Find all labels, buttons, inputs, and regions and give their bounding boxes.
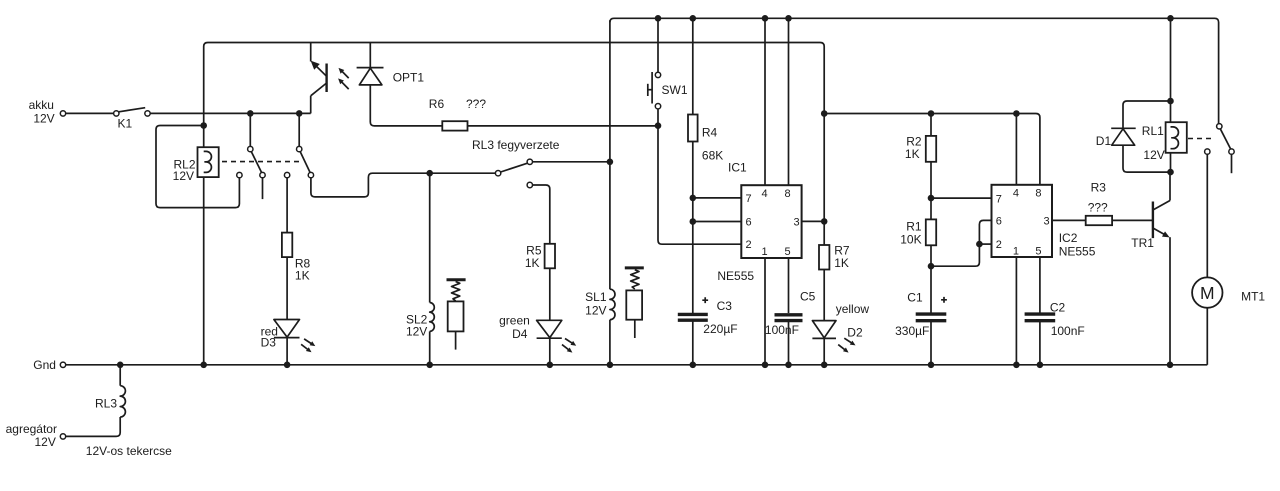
resistor R1 — [926, 219, 936, 245]
capacitor C5 100nF — [775, 313, 803, 316]
wire: R8 to D3 — [286, 257, 288, 319]
node C3/Gnd — [690, 362, 697, 369]
resistor R8 — [282, 233, 292, 258]
svg-text:TR1: TR1 — [1131, 236, 1154, 250]
svg-text:RL3: RL3 — [95, 397, 117, 411]
svg-text:5: 5 — [1035, 245, 1041, 257]
wire: armature common to SL1 vertical — [533, 161, 610, 163]
node pin6 — [690, 218, 697, 225]
node D4/Gnd — [547, 362, 554, 369]
node R6/SW1/pin2 — [655, 122, 662, 129]
wire: pin 8 to bus — [788, 18, 790, 185]
wire: pin 7 stub — [693, 197, 742, 199]
dashed link RL1 contact — [1188, 138, 1215, 140]
svg-text:330µF: 330µF — [895, 324, 929, 338]
resistor R7 — [819, 245, 829, 270]
node Gnd/RL2 coil — [200, 362, 207, 369]
svg-text:2: 2 — [746, 239, 752, 251]
wire: SW1 top — [657, 18, 659, 72]
svg-text:12V: 12V — [585, 304, 606, 318]
SL1 plunger spring — [631, 270, 639, 289]
wire: stub below RL1 moving throw — [1231, 154, 1233, 173]
svg-text:R3: R3 — [1091, 180, 1107, 194]
svg-text:C1: C1 — [907, 290, 923, 304]
solenoid coil SL2 — [430, 303, 435, 332]
node R1/C1/pin2 link — [928, 263, 935, 270]
wire: SL2 coil line — [429, 173, 431, 302]
svg-text:1: 1 — [762, 246, 768, 258]
node SL2/Gnd — [426, 362, 433, 369]
optocoupler OPT1 LED — [369, 43, 371, 68]
wire: SL1 vertical from bus to coil — [609, 20, 611, 289]
node RL2 coil top / loop — [200, 122, 207, 129]
capacitor C3 220uF — [678, 313, 708, 316]
svg-text:akku: akku — [29, 98, 54, 112]
svg-text:6: 6 — [996, 215, 1002, 227]
wire: bus to RL1 coil — [1170, 18, 1172, 122]
node pin7/R4 — [690, 195, 697, 202]
wire: RL1 contact to motor — [1206, 154, 1208, 277]
svg-text:D2: D2 — [847, 326, 863, 340]
timer IC2 box — [992, 185, 1053, 257]
switch RL3 armature — [495, 171, 500, 176]
wire: pin 5 to C2 — [1039, 257, 1041, 313]
svg-text:3: 3 — [794, 216, 800, 228]
wire: link R1 bottom to pins 2 and 6 (IC2) — [931, 244, 979, 266]
node D3/Gnd — [284, 362, 291, 369]
node R2/R1/pin7 — [928, 195, 935, 202]
SL2 plunger — [448, 301, 464, 331]
label + C3 220uF — [702, 297, 708, 303]
wire: pin 4 drop (IC2) — [1015, 114, 1017, 185]
capacitor C1 330uF — [916, 312, 947, 315]
resistor R4 — [692, 18, 694, 114]
wire: R4 down through pin7/pin6 nodes to C3 — [692, 142, 694, 314]
svg-text:RL1: RL1 — [1142, 124, 1164, 138]
wire: pin 7 stub (IC2) — [931, 197, 992, 199]
svg-text:12V: 12V — [35, 435, 56, 449]
wire: pin 5 to C5 — [788, 258, 790, 313]
resistor R3 — [1086, 216, 1112, 225]
svg-text:SL1: SL1 — [585, 290, 607, 304]
wire: stub below contact A moving throw — [262, 178, 264, 199]
node collector/RL1/D1 — [1167, 169, 1174, 176]
wire: R5 to D4 — [549, 268, 551, 320]
svg-text:NE555: NE555 — [1059, 245, 1096, 259]
wire: Gnd bus — [66, 364, 1208, 366]
node C2/Gnd — [1037, 362, 1044, 369]
svg-text:1K: 1K — [525, 256, 540, 270]
svg-text:1K: 1K — [834, 256, 849, 270]
node bus/pin4 — [762, 15, 769, 22]
svg-text:C2: C2 — [1050, 301, 1066, 315]
svg-text:OPT1: OPT1 — [393, 71, 425, 85]
svg-text:IC2: IC2 — [1059, 231, 1078, 245]
svg-text:yellow: yellow — [836, 302, 870, 316]
svg-text:D1: D1 — [1096, 134, 1112, 148]
svg-text:SW1: SW1 — [662, 83, 688, 97]
wire: motor bottom to Gnd bus — [1206, 308, 1208, 365]
wire: contact B drop — [298, 113, 300, 146]
wire: top supply bus — [610, 18, 1219, 123]
resistor R6 — [442, 121, 467, 130]
node armature/SL1 line — [607, 159, 614, 166]
resistor R2 — [930, 114, 932, 136]
svg-text:???: ??? — [466, 97, 486, 111]
transistor TR1 — [1152, 202, 1154, 239]
wire: pin 2 stub (IC2) — [979, 243, 991, 245]
wire: D1 frame top — [1123, 101, 1171, 128]
node C5/Gnd — [785, 362, 792, 369]
svg-text:12V: 12V — [33, 111, 54, 125]
LED D2 yellow — [812, 321, 836, 338]
pushbutton SW1 — [655, 72, 660, 77]
node TR1 emitter/Gnd — [1167, 362, 1174, 369]
switch K1 — [114, 111, 119, 116]
capacitor C2 100nF — [1025, 312, 1056, 315]
svg-text:R6: R6 — [429, 97, 445, 111]
wire: SW1 bottom to pin2 of IC1 — [658, 109, 741, 244]
svg-text:NE555: NE555 — [717, 269, 754, 283]
LED D3 red — [274, 320, 300, 338]
svg-text:6: 6 — [746, 216, 752, 228]
svg-text:12V: 12V — [1143, 148, 1164, 162]
wire: main vertical x=203.7 with V rail y=42.5 and rail down to R7 — [204, 43, 825, 365]
wire: contact A drop — [249, 113, 251, 146]
svg-text:???: ??? — [1088, 200, 1108, 214]
SL1 plunger — [626, 290, 642, 319]
solenoid coil SL1 — [610, 289, 615, 320]
svg-text:100nF: 100nF — [765, 323, 799, 337]
svg-text:RL3 fegyverzete: RL3 fegyverzete — [472, 138, 560, 152]
op-amp timer IC1 box — [741, 185, 801, 258]
node pin3/R7 rail — [821, 218, 828, 225]
optocoupler OPT1 phototransistor — [310, 43, 312, 62]
wire: pin 4 to bus — [764, 18, 766, 185]
node rail/pin4 (IC2) — [1013, 110, 1020, 117]
wire: R7 to D2 — [823, 270, 825, 321]
svg-text:12V-os tekercse: 12V-os tekercse — [86, 444, 172, 458]
wire: pin 1 to Gnd (IC2) — [1015, 257, 1017, 365]
wire: pin 3 stub — [802, 220, 825, 222]
wire: contact B left throw down to R8 — [286, 178, 288, 233]
svg-text:C5: C5 — [800, 289, 816, 303]
svg-text:D3: D3 — [261, 336, 277, 350]
wire: pin 1 to Gnd — [764, 258, 766, 365]
svg-text:12V: 12V — [406, 325, 427, 339]
terminal akku — [60, 111, 65, 116]
svg-text:M: M — [1200, 283, 1215, 303]
wire: contact B right throw to armature line — [311, 173, 496, 197]
node Gnd/RL3 coil — [117, 362, 124, 369]
svg-text:220µF: 220µF — [703, 322, 737, 336]
node bus/pin8 — [785, 15, 792, 22]
svg-text:12V: 12V — [173, 169, 194, 183]
node D2/Gnd — [821, 362, 828, 369]
node SL1/Gnd — [607, 362, 614, 369]
svg-text:7: 7 — [746, 193, 752, 205]
wire: pin 3 stub to R3 — [1052, 219, 1086, 221]
node RL1 top / D1 — [1167, 98, 1174, 105]
svg-text:C3: C3 — [717, 299, 733, 313]
motor MT1 — [1192, 277, 1222, 307]
wire: R6 to SW1 bottom node — [468, 125, 659, 127]
dashed link RL2 contacts — [222, 161, 299, 163]
wire: pin 6 stub — [693, 221, 742, 223]
svg-text:68K: 68K — [702, 149, 723, 163]
wire: second throw to R5 — [533, 185, 550, 244]
svg-text:Gnd: Gnd — [33, 358, 56, 372]
svg-text:R4: R4 — [702, 126, 718, 140]
node akku/contact2 — [296, 110, 303, 117]
node C1/Gnd — [928, 362, 935, 369]
node bus/R4 — [690, 15, 697, 22]
node armature/SL2 — [426, 170, 433, 177]
SL2 plunger spring — [452, 282, 460, 301]
wire: R1 bottom to C1 — [930, 245, 932, 312]
wire: R3 to TR1 base — [1112, 219, 1153, 221]
node V rail / IC2 supply — [821, 110, 828, 117]
terminal agregator — [60, 434, 65, 439]
svg-text:2: 2 — [996, 239, 1002, 251]
terminal Gnd — [60, 362, 65, 367]
wire: akku line left segment — [66, 112, 117, 114]
svg-text:8: 8 — [1035, 188, 1041, 200]
svg-text:100nF: 100nF — [1051, 324, 1085, 338]
relay coil RL1 12V — [1166, 122, 1187, 153]
LED D4 green — [537, 320, 562, 337]
svg-text:4: 4 — [762, 188, 768, 200]
node pin2 (IC2) — [976, 241, 983, 248]
wire: D1 frame bottom — [1123, 145, 1171, 172]
diode D1 — [1111, 127, 1136, 129]
node rail/R2 — [928, 110, 935, 117]
node akku/contact1 — [247, 110, 254, 117]
node bus/RL1 — [1167, 15, 1174, 22]
wire: R2 to R1 — [930, 162, 932, 220]
svg-text:5: 5 — [785, 246, 791, 258]
relay contact RL1 — [1217, 124, 1222, 129]
SL1 plunger stop bar — [625, 266, 644, 269]
SL2 plunger stop bar — [447, 278, 466, 281]
relay coil RL3 — [119, 365, 121, 386]
wire: loop from contact A NC throw around RL2 to coil-top node — [156, 126, 239, 208]
svg-text:IC1: IC1 — [728, 160, 747, 174]
svg-text:10K: 10K — [900, 232, 921, 246]
OPT1 light arrows — [341, 70, 349, 78]
wire: akku line right segment to OPT1 emitter — [150, 112, 311, 114]
relay contact B (RL2) — [297, 146, 302, 151]
svg-text:MT1: MT1 — [1241, 289, 1265, 303]
node pin1/Gnd — [762, 362, 769, 369]
svg-text:8: 8 — [785, 188, 791, 200]
node pin1 IC2/Gnd — [1013, 362, 1020, 369]
svg-text:1K: 1K — [905, 147, 920, 161]
svg-text:7: 7 — [996, 193, 1002, 205]
svg-text:1K: 1K — [295, 268, 310, 282]
wire: IC2 supply rail y=113.5 — [824, 114, 1040, 185]
svg-text:D4: D4 — [512, 327, 528, 341]
svg-text:K1: K1 — [118, 117, 133, 131]
node bus/SW1 — [655, 15, 662, 22]
svg-text:green: green — [499, 314, 530, 328]
svg-text:3: 3 — [1044, 215, 1050, 227]
svg-text:4: 4 — [1013, 188, 1019, 200]
relay coil RL2 12V — [198, 147, 219, 177]
svg-text:1: 1 — [1013, 245, 1019, 257]
relay contact A (RL2) — [248, 146, 253, 151]
resistor R5 — [545, 244, 555, 268]
